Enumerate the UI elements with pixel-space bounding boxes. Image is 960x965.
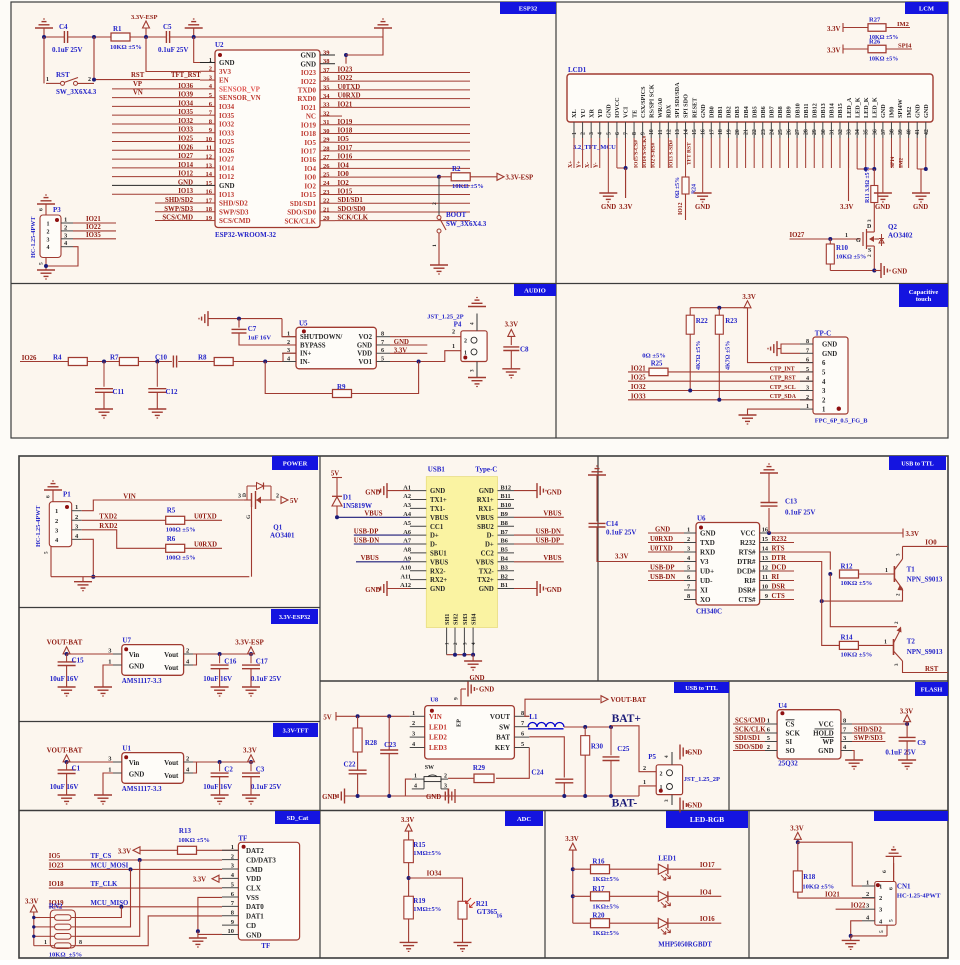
junction LED_K b xyxy=(872,167,876,171)
svg-text:21: 21 xyxy=(744,129,750,135)
svg-text:IO5: IO5 xyxy=(304,139,316,147)
wire T1 emitter row xyxy=(822,589,903,601)
svg-text:DAT0: DAT0 xyxy=(246,903,264,911)
svg-text:CN1: CN1 xyxy=(897,883,911,891)
svg-text:TF: TF xyxy=(238,834,247,842)
svg-text:3: 3 xyxy=(806,385,809,392)
junction C11 xyxy=(102,360,106,364)
wire KEY to R29 xyxy=(496,748,529,779)
wire rail to P5 pin1 xyxy=(639,786,656,796)
svg-text:U0RXD: U0RXD xyxy=(338,93,361,100)
svg-text:IO14: IO14 xyxy=(219,164,235,172)
svg-text:RI#: RI# xyxy=(744,577,756,585)
wire R18 stem xyxy=(797,842,799,871)
junction R28 xyxy=(356,714,360,718)
svg-text:IO16: IO16 xyxy=(301,156,317,164)
svg-text:C17: C17 xyxy=(256,657,269,665)
title tab AUDIO xyxy=(514,284,556,296)
wire P3 pin5 stem xyxy=(45,258,47,271)
svg-text:IM2: IM2 xyxy=(899,158,905,168)
ground (C16) xyxy=(211,686,229,688)
svg-text:RESET: RESET xyxy=(691,97,698,118)
wire U4 VCC row xyxy=(852,723,907,725)
svg-text:0.1uF 25V: 0.1uF 25V xyxy=(885,749,915,757)
svg-text:SHD/SD2: SHD/SD2 xyxy=(854,726,883,733)
junction R9 top xyxy=(417,360,421,364)
wire gnd1 stem xyxy=(43,28,45,37)
svg-text:4: 4 xyxy=(47,245,50,251)
wire gnd stem (POWER) xyxy=(82,577,84,582)
regulator U1 body xyxy=(122,753,184,784)
svg-text:B1: B1 xyxy=(501,582,508,589)
wire U2 pin2 3V3 feed xyxy=(146,37,200,72)
svg-text:3: 3 xyxy=(238,494,241,500)
svg-text:VO1: VO1 xyxy=(359,359,373,366)
capacitor C1 xyxy=(58,769,76,771)
svg-text:BYPASS: BYPASS xyxy=(300,342,326,349)
svg-text:38: 38 xyxy=(889,129,895,135)
svg-text:4K7Ω ±5%: 4K7Ω ±5% xyxy=(726,341,732,370)
svg-text:1MΩ±5%: 1MΩ±5% xyxy=(413,850,441,857)
svg-text:3: 3 xyxy=(867,219,873,222)
capacitor C4 xyxy=(63,31,65,43)
wire ctp rail xyxy=(690,307,747,309)
power arrow 5V xyxy=(281,497,288,504)
svg-text:10KΩ ±5%: 10KΩ ±5% xyxy=(802,884,834,891)
svg-text:B12: B12 xyxy=(501,484,512,491)
ground (USB shell) xyxy=(464,660,482,662)
wire R2 to 3.3V-ESP arrow xyxy=(470,176,497,178)
title tab LED-RGB xyxy=(666,811,748,828)
svg-text:IM2: IM2 xyxy=(897,21,909,28)
svg-text:RN2: RN2 xyxy=(49,902,63,910)
resistor R9 xyxy=(333,390,352,398)
svg-text:GND: GND xyxy=(479,586,494,593)
svg-text:IO4: IO4 xyxy=(304,165,316,173)
svg-text:L1: L1 xyxy=(529,713,538,721)
svg-text:TXD: TXD xyxy=(700,539,715,547)
svg-text:GND: GND xyxy=(178,179,193,186)
svg-text:R13: R13 xyxy=(179,827,192,835)
svg-text:Y+: Y+ xyxy=(577,161,583,169)
svg-text:USB-DN: USB-DN xyxy=(650,574,675,581)
wire R11 to Q2 drain xyxy=(873,203,875,227)
wire TP-C pin1 to gnd xyxy=(748,409,801,415)
svg-text:3.3V: 3.3V xyxy=(243,747,257,755)
svg-text:SWP/SD3: SWP/SD3 xyxy=(164,206,193,213)
svg-text:4: 4 xyxy=(598,132,604,135)
junction pin4 rail xyxy=(91,575,95,579)
svg-text:IO26: IO26 xyxy=(219,147,235,155)
wire R17 to LED xyxy=(610,895,659,897)
svg-text:LED1: LED1 xyxy=(429,723,447,731)
svg-text:IO18: IO18 xyxy=(49,881,64,888)
svg-text:5: 5 xyxy=(879,930,885,933)
wire VCC row xyxy=(771,532,903,534)
capacitor C12 branch xyxy=(156,362,158,387)
svg-text:0.1uF 25V: 0.1uF 25V xyxy=(251,783,281,791)
svg-text:R21: R21 xyxy=(476,900,489,908)
svg-text:SW: SW xyxy=(425,765,434,771)
svg-text:DB10: DB10 xyxy=(794,103,801,118)
wire SH gnd stem xyxy=(472,655,474,661)
svg-text:18: 18 xyxy=(718,129,724,135)
svg-text:1: 1 xyxy=(64,217,67,224)
wire U6 GND net xyxy=(648,532,684,534)
wire R4-R7 xyxy=(87,361,119,363)
svg-text:3.3V-ESP: 3.3V-ESP xyxy=(506,175,534,182)
svg-text:IO4: IO4 xyxy=(700,889,712,896)
svg-text:3.3V: 3.3V xyxy=(565,836,578,843)
svg-text:DAT1: DAT1 xyxy=(246,913,264,921)
svg-text:LCM: LCM xyxy=(919,5,934,12)
ground (Q2, sideways) xyxy=(880,263,882,278)
svg-text:2: 2 xyxy=(432,202,438,205)
title tab ADC xyxy=(505,811,543,826)
wire MCU_MISO row xyxy=(49,906,122,908)
svg-text:SH4: SH4 xyxy=(471,614,478,625)
title tab 3.3V-TFT xyxy=(273,723,318,737)
svg-text:GND: GND xyxy=(923,104,930,118)
svg-text:IO33: IO33 xyxy=(178,127,193,134)
svg-text:IO39: IO39 xyxy=(178,92,193,99)
flash U4 body xyxy=(777,710,841,759)
wire R19 to gnd xyxy=(408,919,410,942)
svg-text:Capacitive: Capacitive xyxy=(909,289,939,296)
resistor R28 xyxy=(353,728,362,752)
svg-text:IO22: IO22 xyxy=(338,75,353,82)
junction LED row1 xyxy=(571,867,575,871)
wire 3.3V-ESP stem xyxy=(250,653,252,655)
svg-text:1: 1 xyxy=(643,779,646,786)
svg-text:6: 6 xyxy=(806,357,809,364)
svg-text:2: 2 xyxy=(822,397,826,404)
svg-text:D: D xyxy=(867,224,872,230)
wire C16 gnd stem xyxy=(219,669,221,687)
svg-text:11: 11 xyxy=(762,574,768,581)
svg-text:IO21: IO21 xyxy=(825,891,840,898)
ground (C12) xyxy=(148,408,166,410)
svg-text:JST_1.25_2P: JST_1.25_2P xyxy=(684,776,720,783)
svg-text:3: 3 xyxy=(664,799,670,802)
wire BAT pin to C24 xyxy=(529,737,564,778)
wire U1 output row xyxy=(193,761,251,763)
svg-text:2: 2 xyxy=(412,720,415,727)
svg-text:22: 22 xyxy=(752,129,758,135)
svg-text:USB-DP: USB-DP xyxy=(650,565,675,572)
wire U5 pin6 net xyxy=(390,352,427,354)
svg-text:R17: R17 xyxy=(592,885,605,893)
svg-text:B7: B7 xyxy=(501,529,508,536)
wire RTS to R12/T2emitter xyxy=(794,552,830,570)
svg-text:IO13 S-SD#: IO13 S-SD# xyxy=(669,140,675,168)
wire C5 to gnd rail xyxy=(170,36,383,38)
capacitor C11 xyxy=(95,388,113,390)
wire R9 to VO1 xyxy=(352,362,419,394)
ground under LCD1 pin16 xyxy=(694,192,712,194)
wire LED_A down to 3.3V xyxy=(848,138,850,201)
resistor R24 xyxy=(682,177,689,194)
wire VOUT-BAT stem (U7) xyxy=(66,653,68,655)
svg-text:TP-C: TP-C xyxy=(815,330,831,338)
svg-text:C25: C25 xyxy=(617,745,630,753)
svg-text:Q1: Q1 xyxy=(273,524,282,532)
svg-text:IO19: IO19 xyxy=(338,119,353,126)
wire CN1 bottom join xyxy=(851,935,887,937)
wire R12 to T1 base xyxy=(859,573,895,575)
junction R30 top xyxy=(583,725,587,729)
svg-text:C5: C5 xyxy=(163,23,172,31)
svg-text:R27: R27 xyxy=(869,17,881,24)
svg-text:8: 8 xyxy=(806,338,809,345)
svg-text:IO22: IO22 xyxy=(86,224,101,231)
svg-text:SCK/CLK: SCK/CLK xyxy=(284,217,316,225)
svg-text:CH340C: CH340C xyxy=(696,608,722,616)
svg-text:R9: R9 xyxy=(337,383,346,391)
wire LED_K join xyxy=(857,168,874,170)
title tab FLASH xyxy=(915,682,948,696)
svg-text:10KΩ ±5%: 10KΩ ±5% xyxy=(841,652,873,659)
junction C9 xyxy=(905,722,909,726)
ground (BOOT) xyxy=(430,264,448,266)
svg-text:1: 1 xyxy=(806,403,809,410)
svg-text:R28: R28 xyxy=(365,739,378,747)
wire rail to R16 xyxy=(573,868,591,870)
svg-text:3.3V-ESP: 3.3V-ESP xyxy=(131,14,157,21)
svg-text:FPC_6P_0.5_FG_B: FPC_6P_0.5_FG_B xyxy=(815,418,868,425)
wire D1 to VBUS row xyxy=(336,506,338,517)
wire LCD1 pins6-7 join to 3.3V xyxy=(617,167,626,169)
ground (B1, sideways) xyxy=(536,581,538,596)
svg-text:IO17: IO17 xyxy=(700,862,715,869)
svg-text:D1: D1 xyxy=(343,494,352,502)
svg-text:SH2: SH2 xyxy=(452,614,459,625)
svg-text:RX2-: RX2- xyxy=(430,568,446,575)
svg-text:AMS1117-3.3: AMS1117-3.3 xyxy=(122,677,162,685)
svg-text:C3: C3 xyxy=(256,765,265,773)
svg-text:10KΩ ±5%: 10KΩ ±5% xyxy=(841,580,873,587)
svg-text:30: 30 xyxy=(821,129,827,135)
svg-text:GND: GND xyxy=(246,931,262,939)
wire BOOT to gnd xyxy=(438,233,440,265)
resistor R8 xyxy=(214,358,233,366)
svg-text:1: 1 xyxy=(75,504,78,511)
svg-text:5V: 5V xyxy=(331,471,339,478)
svg-text:15: 15 xyxy=(762,536,768,543)
svg-text:IO34: IO34 xyxy=(219,103,235,111)
wire gnd stem (TP-C) xyxy=(777,348,781,350)
svg-text:CC2: CC2 xyxy=(481,551,495,558)
wire SW pin1/4 to rail xyxy=(405,779,411,796)
svg-text:USB-DN: USB-DN xyxy=(354,537,379,544)
wire 3.3V to R26 xyxy=(843,48,868,50)
svg-text:RS/SPI SCK: RS/SPI SCK xyxy=(648,84,655,118)
svg-text:2: 2 xyxy=(64,224,67,231)
ground (A12, sideways) xyxy=(386,581,388,596)
svg-text:GND: GND xyxy=(219,59,235,67)
svg-text:IO4: IO4 xyxy=(338,162,350,169)
svg-text:P5: P5 xyxy=(648,753,656,761)
junction feedback xyxy=(263,360,267,364)
P3 pins 1-4 xyxy=(61,222,73,224)
svg-text:2: 2 xyxy=(806,394,809,401)
svg-text:IO5: IO5 xyxy=(338,136,350,143)
wire VOUT to VOUT-BAT xyxy=(525,699,600,716)
svg-text:14: 14 xyxy=(684,129,690,135)
svg-text:1: 1 xyxy=(47,222,50,228)
svg-text:2: 2 xyxy=(581,132,587,135)
svg-text:DB9: DB9 xyxy=(786,106,793,118)
junction CN1 gnd xyxy=(849,934,853,938)
svg-text:25: 25 xyxy=(778,129,784,135)
junction P3 gnd xyxy=(44,264,48,268)
connector P4 body xyxy=(461,331,487,362)
svg-text:U0TXD: U0TXD xyxy=(650,546,673,553)
svg-text:IO12: IO12 xyxy=(678,202,684,215)
title tab POWER xyxy=(272,456,318,470)
svg-text:U0RXD: U0RXD xyxy=(194,541,217,548)
svg-text:8: 8 xyxy=(521,710,524,717)
svg-text:A2: A2 xyxy=(403,493,411,500)
svg-text:LCD1: LCD1 xyxy=(568,66,587,74)
transistor T2 NPN_S9013 xyxy=(893,639,895,655)
svg-text:DB0: DB0 xyxy=(708,106,715,118)
U1 pin stubs xyxy=(113,761,122,763)
svg-text:3.3V: 3.3V xyxy=(742,294,755,301)
svg-text:C10: C10 xyxy=(155,354,168,362)
svg-text:SBU1: SBU1 xyxy=(430,551,447,558)
wire Q2 source to rail xyxy=(873,252,875,271)
resistor network RN2 body xyxy=(50,910,75,948)
junction TF_CS pullup xyxy=(138,858,142,862)
wire SW to L1 xyxy=(528,726,529,728)
svg-text:USB to TTL: USB to TTL xyxy=(685,685,718,692)
svg-text:SHD/SD2: SHD/SD2 xyxy=(165,197,194,204)
wire C23 top xyxy=(388,716,390,750)
svg-text:TF_CLK: TF_CLK xyxy=(91,881,119,888)
svg-text:2: 2 xyxy=(866,891,869,898)
svg-text:IO17: IO17 xyxy=(301,148,317,156)
svg-text:VBUS: VBUS xyxy=(430,559,448,566)
frame: divider y721 (3.3V-ESP32 bottom) xyxy=(19,721,320,723)
svg-text:HOLD: HOLD xyxy=(813,730,834,738)
wire C9 gnd stem xyxy=(906,741,908,760)
junction R18 top xyxy=(796,840,800,844)
svg-text:IO17: IO17 xyxy=(338,145,353,152)
wire rail to U2 GND pins xyxy=(346,37,383,55)
capacitor C8 xyxy=(503,346,519,348)
svg-text:IO34: IO34 xyxy=(178,100,193,107)
svg-text:DSR#: DSR# xyxy=(738,587,756,595)
wire B9 VBUS xyxy=(514,516,564,518)
svg-text:C9: C9 xyxy=(917,739,926,747)
svg-text:3.3V: 3.3V xyxy=(840,204,853,211)
wire R8 to U5 IN- xyxy=(233,361,296,363)
svg-text:40: 40 xyxy=(907,129,913,135)
LCD connector LCD1 body xyxy=(567,74,933,122)
wire CN1 bottom pin xyxy=(886,925,888,936)
wire R28 top xyxy=(357,716,359,728)
wire R29 to SW btn xyxy=(448,777,474,779)
wire IO27 to Q2 gate xyxy=(790,238,862,240)
wire charger bottom rail xyxy=(345,795,639,797)
switch RST SW_3X6X4.3 xyxy=(61,81,65,85)
svg-text:SI: SI xyxy=(786,738,793,746)
svg-text:GND: GND xyxy=(606,104,613,118)
svg-text:5: 5 xyxy=(822,370,826,377)
svg-text:3.3V: 3.3V xyxy=(827,26,840,33)
wire R21 to gnd xyxy=(462,919,464,942)
svg-text:SH1: SH1 xyxy=(444,614,451,625)
svg-text:8: 8 xyxy=(79,940,82,946)
wire 5V to D1 xyxy=(336,478,338,497)
svg-text:R232: R232 xyxy=(740,539,756,547)
svg-text:LED2: LED2 xyxy=(429,734,447,742)
svg-text:IO27: IO27 xyxy=(790,232,805,239)
ground above P3 xyxy=(45,194,47,196)
junction C15 xyxy=(65,652,69,656)
svg-text:IM2: IM2 xyxy=(906,107,913,118)
wire IO33 row xyxy=(628,399,813,401)
svg-text:SENSOR_VN: SENSOR_VN xyxy=(219,94,261,102)
power arrow 3.3V-ESP xyxy=(143,21,150,28)
svg-text:R26: R26 xyxy=(869,39,881,46)
svg-text:RST: RST xyxy=(56,71,70,79)
title tab ESP32 xyxy=(500,2,556,14)
svg-text:TX1-: TX1- xyxy=(430,506,446,513)
ground under LCD1 pin5 xyxy=(599,192,617,194)
svg-text:VBUS: VBUS xyxy=(361,555,379,562)
svg-text:IO25: IO25 xyxy=(219,138,235,146)
svg-text:AO3401: AO3401 xyxy=(270,532,295,540)
svg-text:5: 5 xyxy=(381,356,384,363)
svg-text:GND: GND xyxy=(219,182,235,190)
svg-text:6: 6 xyxy=(615,132,621,135)
junction pin42 xyxy=(924,167,928,171)
wire P5 bottom pin xyxy=(671,795,673,805)
wire MOSI to TF pin3 xyxy=(131,868,223,870)
capacitor C3 branch xyxy=(250,762,252,771)
capacitor C15 xyxy=(58,661,76,663)
svg-text:3.3V: 3.3V xyxy=(193,877,206,884)
ground (left of C4) xyxy=(43,18,45,20)
svg-text:Vout: Vout xyxy=(164,651,179,659)
wire MCU_MOSI row xyxy=(49,868,131,870)
wire switch RST left to gnd rail xyxy=(43,37,45,83)
svg-text:RTS#: RTS# xyxy=(739,549,756,557)
svg-text:RST: RST xyxy=(131,72,145,79)
svg-text:VSS: VSS xyxy=(246,894,259,902)
svg-text:17: 17 xyxy=(709,129,715,135)
wire Q1 gate to rail xyxy=(251,507,253,577)
svg-text:DB14: DB14 xyxy=(829,103,836,118)
wire arrow to R13 xyxy=(140,849,178,851)
frame: divider y681 (mid row) xyxy=(320,680,948,682)
junction RST row x94 xyxy=(92,78,96,82)
wire CN1 pin3 xyxy=(836,908,862,910)
svg-text:27: 27 xyxy=(795,129,801,135)
svg-text:20: 20 xyxy=(735,129,741,135)
resistor R6 xyxy=(166,544,185,552)
frame: ESP32/LCM vertical divider xyxy=(555,2,557,438)
svg-text:LED_K: LED_K xyxy=(854,97,861,118)
frame: divider y607 (POWER bottom) xyxy=(19,607,320,609)
svg-text:AO3402: AO3402 xyxy=(888,232,913,240)
svg-text:IO21: IO21 xyxy=(301,104,317,112)
wire EN-RC rail left xyxy=(44,36,64,38)
svg-text:TF_CS: TF_CS xyxy=(91,853,112,860)
svg-text:1: 1 xyxy=(44,940,47,946)
